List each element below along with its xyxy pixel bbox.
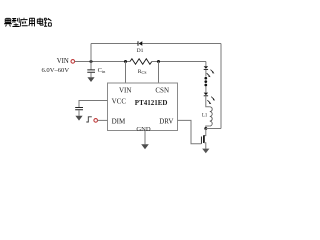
wire: top rail from VIN node to right rail (with gap for D1) — [91, 43, 221, 45]
ground (VCC cap) — [75, 116, 82, 121]
wire: capacitor to ground — [78, 110, 80, 116]
PWM signal symbol — [86, 117, 92, 122]
transistor Q1 (NMOS) — [201, 129, 205, 149]
wire: VCC pin to bypass capacitor — [79, 101, 108, 108]
svg-text:DRV: DRV — [159, 118, 173, 126]
inductor L1 — [206, 97, 212, 129]
wire: LED chain segments — [205, 62, 207, 97]
capacitor (VCC bypass) — [75, 108, 83, 110]
svg-text:RCS: RCS — [138, 69, 147, 75]
node: Rcs left — [124, 60, 127, 63]
node: Rcs right — [157, 60, 160, 63]
ground (MOSFET source) — [202, 149, 209, 154]
wire: Rcs right node to CSN pin — [158, 62, 160, 84]
wire: right vertical rail down to switch node — [220, 44, 222, 129]
op-amp U1 PT4121ED box — [108, 83, 178, 131]
wire: GND pin down — [144, 131, 146, 144]
LED 2 — [204, 93, 215, 105]
capacitor Cin — [87, 62, 95, 78]
wire: VIN node up to top rail — [90, 44, 92, 62]
svg-text:D1: D1 — [137, 48, 144, 54]
terminal DIM (red circle) — [94, 119, 98, 123]
svg-text:VIN: VIN — [57, 58, 69, 65]
resistor Rcs — [130, 59, 152, 65]
svg-text:L1: L1 — [202, 114, 208, 119]
wire: DIM terminal to DIM pin — [98, 119, 108, 121]
svg-text:PT4121ED: PT4121ED — [135, 99, 168, 107]
ground (GND pin) — [141, 144, 149, 149]
wire: VIN horizontal rail to LED string (with gap for Rcs) — [75, 61, 206, 63]
svg-text:VCC: VCC — [112, 98, 127, 106]
ellipsis dots (more LEDs) — [204, 77, 207, 87]
LED 1 — [204, 66, 215, 77]
wire: DRV pin to MOSFET gate — [178, 120, 202, 143]
wire: Rcs left node to VIN pin — [125, 62, 127, 84]
title 典型应用电路 (drawn glyphs) — [4, 18, 51, 27]
svg-text:CSN: CSN — [155, 86, 169, 94]
svg-text:GND: GND — [136, 126, 151, 133]
wire: switch node to right rail — [206, 128, 221, 130]
svg-text:VIN: VIN — [119, 86, 131, 94]
node: switch node — [204, 127, 207, 130]
node: VIN junction — [90, 60, 93, 63]
ground (Cin) — [87, 77, 94, 82]
terminal VIN (red circle) — [71, 60, 75, 64]
diode D1 — [138, 41, 142, 46]
svg-text:6.0V–60V: 6.0V–60V — [41, 67, 69, 74]
svg-text:Cin: Cin — [98, 67, 106, 74]
svg-text:DIM: DIM — [112, 118, 126, 126]
